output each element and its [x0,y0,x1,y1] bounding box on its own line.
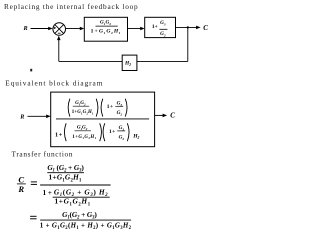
summing junction [53,23,66,36]
svg-text:R: R [17,184,24,194]
ink speck (scan artifact) [30,69,32,72]
denominator: 1 + ( G1G2 / (1+G1G2H1) ) [55,123,101,141]
feedback wire: right horizontal segment [137,60,188,62]
svg-text:1+: 1+ [55,131,63,138]
svg-text:1 + G1G2(H1 + H2) + G1G3H2: 1 + G1G2(H1 + H2) + G1G3H2 [40,222,132,231]
svg-text:1+G1G2H1: 1+G1G2H1 [72,135,96,140]
svg-text:Transfer function: Transfer function [12,150,74,159]
wire R to equivalent block [28,115,51,119]
svg-text:Equivalent block diagram: Equivalent block diagram [5,78,103,87]
svg-text:1+: 1+ [109,129,116,135]
minus sign at summing junction [58,32,61,34]
svg-text:1+G1G2H1: 1+G1G2H1 [72,110,94,115]
feedback wire: down from takeoff [187,27,189,61]
feedback wire: left horizontal segment [59,60,122,62]
svg-text:C: C [170,112,175,119]
equation 2: = G1(G2+G3)/(1+G1G2(H1+H2)+G1G3H2) [30,210,132,231]
numerator: ( 1 + G3/G2 ) [101,99,127,117]
main fraction bar [40,184,111,186]
wire block2 to C with takeoff point [176,26,201,30]
equals [31,182,37,185]
svg-text:R: R [23,25,28,32]
block H2 [122,55,137,70]
block G1G2/(1+G1G2H1) [84,17,127,41]
wire summing junction to block1 [66,27,85,31]
svg-text:1+: 1+ [107,104,114,110]
feedback wire: up into summing junction [57,36,61,62]
svg-text:Replacing the internal feedbac: Replacing the internal feedback loop [4,2,138,11]
wire equivalent block to C [155,114,168,118]
main fraction bar inside equivalent block [56,118,149,120]
svg-text:1+: 1+ [152,24,158,30]
svg-text:1+G1G2H1: 1+G1G2H1 [91,29,122,36]
equation 1: C/R = (fraction)/(1 + fraction) [17,163,111,207]
svg-text:1 +: 1 + [43,189,52,197]
wire R to summing junction [31,27,53,31]
svg-text:C: C [203,25,208,32]
wire block1 to block2 [128,27,145,31]
block 1+G3/G2 [145,17,176,37]
plus sign at summing junction [54,27,56,29]
denominator: ( 1 + G3/G2 ) H2 [103,123,140,141]
equivalent block (big transfer function block) [51,92,155,147]
svg-text:R: R [19,113,24,120]
numerator: ( G1G2 / (1+G1G2H1) ) [68,99,98,117]
